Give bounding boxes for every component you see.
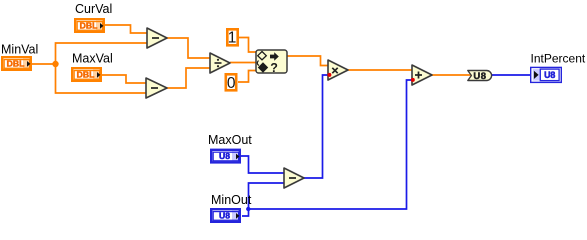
terminal CurVal DBL (75, 19, 104, 32)
wire subtract S2 output to divide input2 (167, 68, 210, 88)
wire MinVal to node A junction (32, 63, 56, 65)
svg-text:U8: U8 (219, 151, 230, 161)
subtract S1 (147, 28, 167, 48)
svg-text:0: 0 (227, 75, 236, 92)
svg-text:MaxOut: MaxOut (208, 133, 252, 147)
svg-text:MinVal: MinVal (1, 43, 38, 57)
svg-text:DBL: DBL (77, 69, 95, 79)
svg-text:MinOut: MinOut (211, 193, 252, 207)
wire node B junction right to add input2 (249, 80, 413, 209)
add A1 (412, 65, 432, 85)
wire constant 0 to coerce lower limit (238, 71, 256, 83)
svg-text:DBL: DBL (7, 58, 25, 68)
constant 1 (227, 29, 237, 46)
wire MaxOut to subtract S3 input1 (241, 156, 284, 173)
wire multiply output to add input1 (348, 69, 412, 71)
divide D1 (210, 53, 230, 73)
node A junction dot (52, 61, 58, 67)
wire subtract S1 output to divide input1 (167, 38, 210, 58)
wire divide output to coerce x input (230, 62, 256, 64)
wire MinOut up to subtract S3 input2 (242, 183, 284, 216)
in-range-and-coerce U1 (256, 50, 287, 75)
svg-text:MaxVal: MaxVal (72, 52, 113, 66)
wire coerce output to multiply input1 (287, 56, 328, 66)
svg-text:1: 1 (228, 29, 237, 46)
wire CurVal to subtract S1 input1 (105, 25, 147, 33)
svg-text:U8: U8 (219, 210, 230, 220)
terminal MinOut U8 (211, 209, 240, 222)
svg-text:?: ? (270, 61, 278, 75)
subtract S2 (146, 78, 167, 98)
conversion node U8 (468, 71, 492, 83)
terminal MaxVal DBL (72, 68, 101, 81)
wire subtract S3 output to multiply input2 (304, 75, 328, 178)
svg-text:IntPercent: IntPercent (531, 52, 586, 66)
terminal MinVal DBL (2, 57, 31, 70)
coercion dot at add input2 (411, 78, 415, 82)
wire node A down to subtract S2 input2 (56, 64, 147, 93)
svg-text:U8: U8 (473, 71, 486, 82)
wire MaxVal to subtract S2 input1 (102, 75, 146, 83)
multiply M1 (328, 60, 348, 80)
subtract S3 (284, 168, 304, 188)
constant 0 (226, 74, 236, 92)
coercion dot at multiply input2 (327, 73, 331, 77)
svg-text:DBL: DBL (80, 20, 98, 30)
svg-text:U8: U8 (544, 70, 555, 80)
svg-text:CurVal: CurVal (75, 2, 112, 16)
terminal MaxOut U8 (211, 150, 240, 163)
terminal IntPercent U8 indicator (531, 67, 562, 82)
wire node A up to subtract S1 input2 (56, 43, 148, 64)
wire add output to U8 conversion (432, 74, 471, 76)
wire U8 conversion to IntPercent (491, 74, 530, 76)
wire constant 1 to coerce upper limit (239, 38, 256, 53)
node B junction dot (246, 207, 250, 211)
